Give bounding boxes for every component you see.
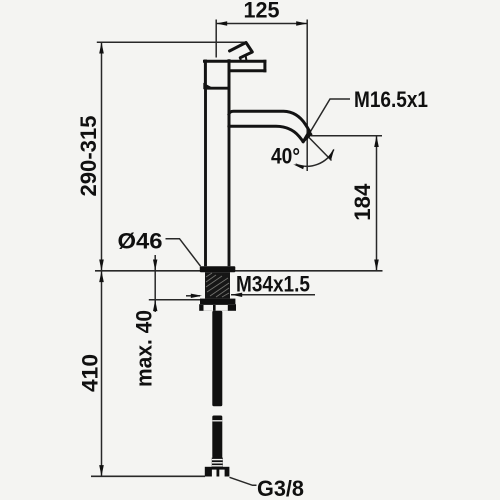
threaded shank [205, 272, 230, 298]
dimension 184 [376, 136, 378, 271]
M34 underline with left-pointing arrow [231, 294, 315, 296]
svg-text:184: 184 [350, 183, 375, 221]
spout tip beak [303, 129, 312, 141]
supply hose lower [212, 416, 222, 459]
svg-text:M16.5x1: M16.5x1 [354, 87, 428, 112]
arrow 410 bottom [99, 465, 104, 476]
arrow 290-315 top [99, 42, 104, 53]
body collar bottom line [204, 87, 230, 90]
deck line [95, 270, 383, 272]
svg-text:Ø46: Ø46 [118, 228, 163, 253]
arrow max40 bottom (outside, pointing up at nut line) [153, 300, 157, 311]
svg-text:410: 410 [78, 354, 103, 392]
body collar notch [203, 83, 212, 90]
dimension max.40 [154, 255, 156, 312]
svg-text:G3/8: G3/8 [257, 476, 304, 500]
leader diameter 46 [166, 239, 201, 267]
arrow 290-315 bottom [99, 260, 104, 271]
extension line 125 right / spout tip vertical [306, 20, 308, 172]
faucet lever handle [230, 43, 253, 61]
arrow 410 top [99, 271, 104, 282]
arc arrow left [293, 164, 304, 169]
svg-text:M34x1.5: M34x1.5 [236, 272, 310, 297]
extension line nut top level [149, 299, 200, 301]
G3/8 connector nut [205, 467, 230, 477]
spout [229, 111, 310, 142]
arc arrow right [328, 149, 335, 160]
base flange [200, 266, 236, 272]
arrow 184 bottom [374, 260, 379, 271]
arrow 184 top [374, 136, 379, 147]
bottom reference line [91, 475, 205, 477]
hose end ribs [212, 458, 223, 468]
mounting nut [199, 304, 236, 311]
thread hatch lines [206, 273, 229, 297]
extension line 125 left (body axis) [215, 20, 217, 58]
svg-text:max. 40: max. 40 [131, 310, 156, 387]
leader M16.5x1 [308, 99, 350, 135]
leader G3/8 [230, 477, 257, 485]
arrow 125 right [296, 21, 307, 26]
extension line 184 top (spout outlet level) [311, 135, 382, 137]
40 degree reference line [309, 138, 332, 161]
M34 left arrow [186, 295, 200, 297]
40 degree arc [296, 150, 334, 167]
dimension 125 [216, 23, 307, 25]
faucet body top cap and arm [205, 61, 265, 127]
faucet column [206, 88, 230, 266]
arrow 125 left [216, 21, 227, 26]
supply hose upper [212, 311, 222, 406]
svg-text:125: 125 [244, 0, 280, 22]
dimension line 290-315 / 410 (left vertical) [101, 42, 103, 476]
arrow max40 top (outside, pointing down at deck) [153, 260, 157, 271]
extension line top (lever top level) [97, 41, 246, 43]
washer [200, 299, 235, 305]
svg-text:290-315: 290-315 [76, 116, 101, 197]
